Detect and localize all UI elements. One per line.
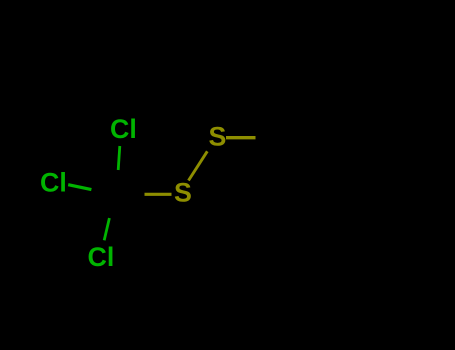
bond Cl(top)-C, chlorine half <box>118 146 120 170</box>
svg-text:Cl: Cl <box>110 114 137 144</box>
svg-text:S: S <box>209 122 227 152</box>
benzene ring (carbon, black-on-black) <box>279 82 411 196</box>
svg-text:Cl: Cl <box>40 168 67 198</box>
bond S2-ring, sulfur half <box>226 136 256 139</box>
carbon half of ring-S bond (black-on-black) <box>256 138 280 139</box>
svg-text:Cl: Cl <box>88 242 115 272</box>
bond Cl(left)-C, chlorine half <box>68 185 91 190</box>
bond Cl(bottom)-C, chlorine half <box>104 218 109 240</box>
bond C-S1, sulfur half <box>145 193 172 196</box>
central carbon half-bonds (black-on-black) <box>91 170 144 218</box>
benzene inner double bonds (black-on-black) <box>292 93 398 185</box>
svg-text:S: S <box>174 178 192 208</box>
bond S1-S2 <box>189 151 208 180</box>
